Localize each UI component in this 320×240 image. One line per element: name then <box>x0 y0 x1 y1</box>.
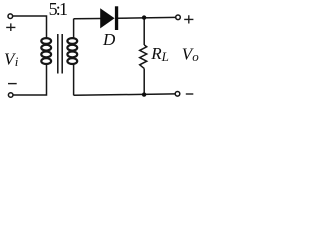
svg-text:Vi: Vi <box>4 50 19 69</box>
svg-text:Vo: Vo <box>182 44 199 64</box>
svg-text:5:1: 5:1 <box>49 0 67 19</box>
svg-text:D: D <box>102 30 116 49</box>
svg-text:RL: RL <box>150 44 169 64</box>
